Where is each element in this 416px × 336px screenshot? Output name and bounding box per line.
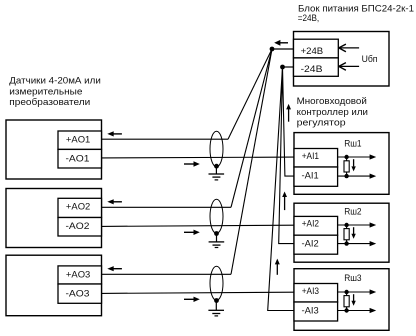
svg-text:Uбп: Uбп (362, 54, 378, 64)
resistor Rsh1 (346, 157, 348, 161)
junction shield 2 (214, 231, 219, 236)
terminal +AO3 (58, 266, 102, 284)
svg-text:+AI3: +AI3 (302, 286, 319, 296)
wire node2 to -24V (283, 66, 294, 68)
sensor 3 box (6, 255, 102, 316)
resistor Rsh2 (346, 225, 348, 229)
sensor 2 box (6, 189, 102, 248)
node +24V bus (270, 47, 275, 52)
wire node1 to +24V (272, 48, 294, 50)
wire -AO1 to +AI1 (102, 156, 294, 159)
wire +AI3 to Rsh3 (338, 291, 371, 293)
terminal -AO2 (58, 218, 102, 237)
up arrow 1 (288, 108, 290, 122)
svg-text:-24В: -24В (301, 64, 323, 74)
arrow out -AI2 (370, 241, 377, 246)
svg-text:+24В: +24В (301, 46, 324, 56)
wire -AI2 to Rsh2 (338, 243, 371, 245)
terminal -24V (294, 58, 339, 76)
wire +AI2 to Rsh2 (338, 224, 371, 226)
terminal +24V (294, 39, 339, 58)
arrow out +AI3 (370, 289, 377, 294)
arrow current to +24V (279, 42, 288, 44)
svg-text:+AO2: +AO2 (66, 202, 90, 212)
arrow on +AO1 wire (113, 133, 122, 135)
arrow on -AO2 wire (184, 231, 194, 233)
svg-text:-AI2: -AI2 (302, 239, 319, 249)
controller input 2 box (294, 203, 389, 262)
terminal -AO1 (58, 149, 102, 168)
wire -AO3 to +AI3 (102, 292, 294, 293)
controller input 3 box (294, 269, 389, 331)
terminal +AI1 (294, 149, 338, 168)
svg-text:-AO3: -AO3 (66, 289, 90, 299)
sensor 1 box (6, 120, 102, 179)
wire +AO3 to +24V bus (231, 49, 272, 274)
svg-text:измерительные: измерительные (9, 86, 82, 96)
svg-text:преобразователи: преобразователи (9, 97, 90, 107)
arrow on -AO1 wire (184, 163, 194, 165)
power supply box (294, 32, 390, 87)
ground 3 (215, 301, 217, 311)
terminal -AI1 (294, 167, 338, 186)
svg-text:-AI1: -AI1 (302, 171, 319, 181)
arrow through Rsh1 (353, 159, 355, 166)
svg-text:+AI2: +AI2 (302, 219, 319, 229)
terminal -AI2 (294, 235, 338, 254)
junction shield 3 (214, 298, 219, 303)
arrow out +AI1 (370, 154, 377, 159)
svg-text:Rш3: Rш3 (344, 273, 361, 283)
svg-text:-AI3: -AI3 (302, 306, 319, 316)
arrow into -24V (339, 65, 359, 67)
wire +AO1 (102, 138, 229, 140)
wire -AI3 to Rsh3 (338, 310, 371, 312)
node -24V bus (280, 65, 285, 70)
twisted pair 2 (210, 199, 223, 233)
terminal -AI3 (294, 302, 338, 321)
terminal +AO2 (58, 198, 102, 217)
wire +AO1 to +24V bus (228, 49, 272, 139)
arrow out -AI3 (370, 308, 377, 313)
up arrow 3 (276, 264, 278, 275)
twisted pair 3 (210, 266, 223, 300)
arrow out -AI1 (370, 174, 377, 179)
wire +AO3 (102, 273, 232, 275)
svg-text:Многовходовой: Многовходовой (297, 96, 367, 106)
svg-text:+AO3: +AO3 (66, 269, 90, 279)
svg-text:+AI1: +AI1 (302, 151, 319, 161)
arrow through Rsh3 (353, 294, 355, 301)
wire -AI3 to -24V bus (268, 67, 294, 311)
arrow out +AI2 (370, 222, 377, 227)
arrow into +24V (339, 47, 359, 49)
junction +AI2/Rsh2 (344, 223, 348, 227)
svg-text:-AO1: -AO1 (66, 154, 90, 164)
resistor Rsh3 (346, 292, 348, 296)
junction -AI2/Rsh2 (344, 241, 348, 245)
svg-text:регулятор: регулятор (297, 118, 346, 128)
arrow on -AO3 wire (184, 298, 194, 300)
svg-text:=24В,: =24В, (298, 13, 320, 23)
arrow on +AO3 wire (113, 268, 122, 270)
junction +AI3/Rsh3 (344, 290, 348, 294)
controller input 1 box (294, 133, 389, 195)
arrow through Rsh2 (353, 227, 355, 234)
wire +AO2 to +24V bus (231, 49, 272, 207)
wire -AO2 to +AI2 (102, 225, 294, 226)
svg-text:контроллер или: контроллер или (297, 107, 368, 117)
junction shield 1 (214, 164, 219, 169)
ground 1 (215, 166, 217, 174)
junction +AI1/Rsh1 (344, 155, 348, 159)
terminal +AO1 (58, 131, 102, 149)
wire +AO2 (102, 206, 232, 208)
ground 2 (216, 234, 218, 242)
wire -AI1 to -24V bus (283, 67, 294, 176)
svg-text:-AO2: -AO2 (66, 221, 90, 231)
arrow on +AO2 wire (113, 201, 122, 203)
wire -AI1 to Rsh1 (338, 175, 371, 177)
wire +AI1 to Rsh1 (338, 156, 371, 158)
svg-text:Датчики 4-20мА или: Датчики 4-20мА или (9, 76, 101, 86)
svg-text:+AO1: +AO1 (66, 134, 90, 144)
up arrow 2 (284, 196, 286, 211)
svg-text:Rш2: Rш2 (344, 207, 361, 217)
wire -AI2 to -24V bus (279, 67, 294, 244)
junction -AI3/Rsh3 (344, 308, 348, 312)
junction -AI1/Rsh1 (344, 174, 348, 178)
terminal -AO3 (58, 284, 102, 303)
twisted pair 1 (210, 131, 223, 166)
terminal +AI2 (294, 216, 338, 235)
svg-text:Rш1: Rш1 (344, 138, 361, 148)
terminal +AI3 (294, 284, 338, 303)
